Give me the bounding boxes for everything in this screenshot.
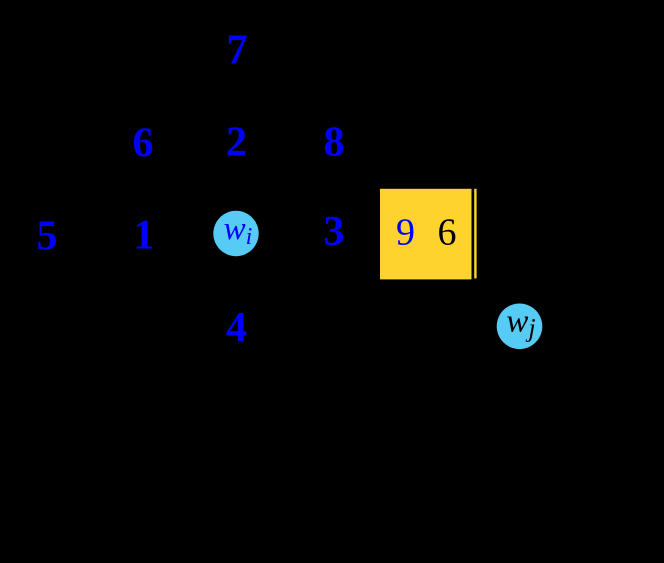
svg-text:4: 4	[226, 305, 247, 351]
node circle w_j	[497, 304, 543, 350]
svg-text:6: 6	[133, 121, 154, 167]
svg-text:5: 5	[37, 214, 58, 260]
svg-text:2: 2	[226, 120, 247, 166]
svg-text:3: 3	[324, 209, 345, 255]
svg-text:8: 8	[324, 120, 345, 166]
yellow highlight square	[380, 189, 472, 280]
yellow vertical line right of square	[474, 189, 476, 279]
svg-text:9: 9	[396, 212, 415, 254]
svg-text:1: 1	[134, 213, 155, 259]
node circle w_i	[213, 211, 258, 256]
svg-text:6: 6	[438, 212, 457, 254]
svg-text:7: 7	[227, 28, 248, 74]
